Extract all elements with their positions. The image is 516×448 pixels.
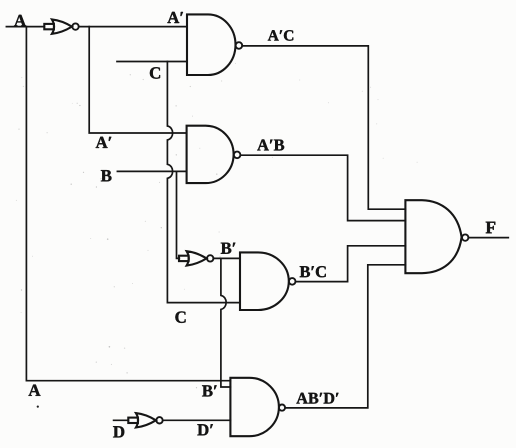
wire D' to bottom NAND xyxy=(163,419,231,421)
wire B branch down to inverter U2 xyxy=(177,171,180,258)
label B' inv xyxy=(221,243,236,254)
wire A vertical trunk down to bottom NAND xyxy=(26,27,230,381)
wire AB'D' output to final gate xyxy=(285,265,405,408)
wire A'C output to final gate xyxy=(242,46,405,209)
wire B' vertical down with hop over C, to bottom NAND xyxy=(221,258,231,387)
wire B'C output to final gate xyxy=(296,246,406,282)
label D' xyxy=(197,424,212,435)
NAND gate N2 (A'B) xyxy=(187,126,241,183)
wire F output xyxy=(469,237,509,239)
label B' bottom xyxy=(202,385,217,396)
NAND gate N5 final (F) xyxy=(405,200,468,273)
label C low xyxy=(175,311,185,322)
wire B input to NAND2 xyxy=(117,170,186,172)
label A' top xyxy=(167,12,183,23)
wire D input xyxy=(114,419,129,421)
wire A'B output to final gate xyxy=(240,155,405,220)
wire A' branch down to NAND2 input xyxy=(89,27,186,133)
wire B' to NAND3 xyxy=(214,257,241,259)
NAND gate N3 (B'C) xyxy=(240,252,296,310)
label F xyxy=(486,222,496,233)
label AB'D' xyxy=(296,393,338,404)
wire C input to NAND1 xyxy=(117,61,187,63)
wire A input top xyxy=(6,26,44,28)
label D xyxy=(113,426,124,437)
inverter U2 (B to B') xyxy=(179,251,213,265)
label B'C xyxy=(300,266,326,277)
label A bottom xyxy=(28,385,40,396)
label A top xyxy=(14,15,26,26)
NAND gate N4 (AB'D') xyxy=(230,378,285,436)
label B xyxy=(101,170,112,181)
wire A' from inverter to NAND1 xyxy=(79,26,187,28)
wire C vertical branch with two hops, to NAND3 lower input xyxy=(167,62,240,303)
label A'B xyxy=(257,140,284,151)
inverter U3 (D to D') xyxy=(128,413,162,427)
label C top xyxy=(150,67,160,78)
label A' mid xyxy=(96,137,112,148)
label A'C xyxy=(268,30,293,40)
NAND gate N1 (A'C) xyxy=(187,14,242,75)
inverter U1 (A to A') xyxy=(44,19,78,33)
stray dot xyxy=(37,406,39,408)
